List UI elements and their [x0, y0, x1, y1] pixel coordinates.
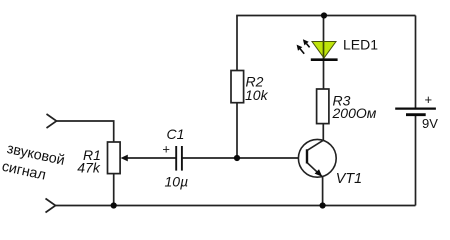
wire C1 to transistor base: [182, 157, 299, 159]
input terminal bottom: [46, 199, 56, 213]
wire bottom rail: [56, 205, 416, 207]
wire R2 bottom to node: [236, 103, 238, 158]
wire top input to R1: [57, 121, 114, 142]
wire top rail: [236, 15, 415, 17]
LED light arrow lower: [297, 45, 305, 54]
wire battery positive: [415, 16, 417, 108]
resistor R1 (potentiometer body): [108, 142, 121, 174]
wire LED cathode to R3: [323, 58, 325, 90]
wire R3 to collector: [322, 124, 324, 141]
node emitter bottom: [320, 202, 326, 208]
svg-text:VT1: VT1: [336, 171, 362, 187]
svg-text:9V: 9V: [422, 116, 438, 131]
wire R2 top branch: [236, 16, 238, 71]
node at top rail: [321, 12, 327, 18]
input terminal top: [47, 114, 57, 128]
LED1 body: [312, 42, 336, 59]
node R1 bottom: [111, 202, 117, 208]
VT1 base bar: [306, 149, 308, 163]
svg-text:47k: 47k: [77, 160, 101, 176]
wire LED anode: [323, 16, 325, 43]
LED light arrow upper: [303, 39, 310, 47]
svg-text:+: +: [425, 92, 433, 107]
resistor R2: [231, 71, 244, 103]
svg-text:+: +: [162, 141, 170, 156]
transistor VT1 body: [298, 139, 336, 177]
svg-text:LED1: LED1: [343, 36, 378, 52]
battery long plate (+): [395, 107, 436, 109]
LED cathode bar: [311, 58, 338, 61]
VT1 collector line: [308, 140, 324, 150]
svg-text:10k: 10k: [245, 87, 269, 103]
svg-text:C1: C1: [167, 126, 185, 142]
battery short plate (-): [406, 113, 426, 116]
svg-text:10µ: 10µ: [165, 173, 189, 189]
wire R1 bottom to ground rail: [113, 174, 115, 206]
wire battery negative: [415, 116, 417, 206]
VT1 emitter line: [308, 163, 323, 177]
VT1 emitter arrowhead: [315, 169, 323, 177]
node R2/C1/base: [234, 155, 240, 161]
resistor R3: [317, 89, 329, 124]
wire R1 wiper to C1: [127, 157, 176, 159]
svg-text:200Ом: 200Ом: [332, 105, 377, 121]
capacitor C1 plates: [175, 146, 177, 171]
wire emitter to bottom rail: [322, 177, 324, 206]
R1 wiper arrowhead: [121, 155, 128, 162]
wire through LED: [323, 42, 325, 58]
